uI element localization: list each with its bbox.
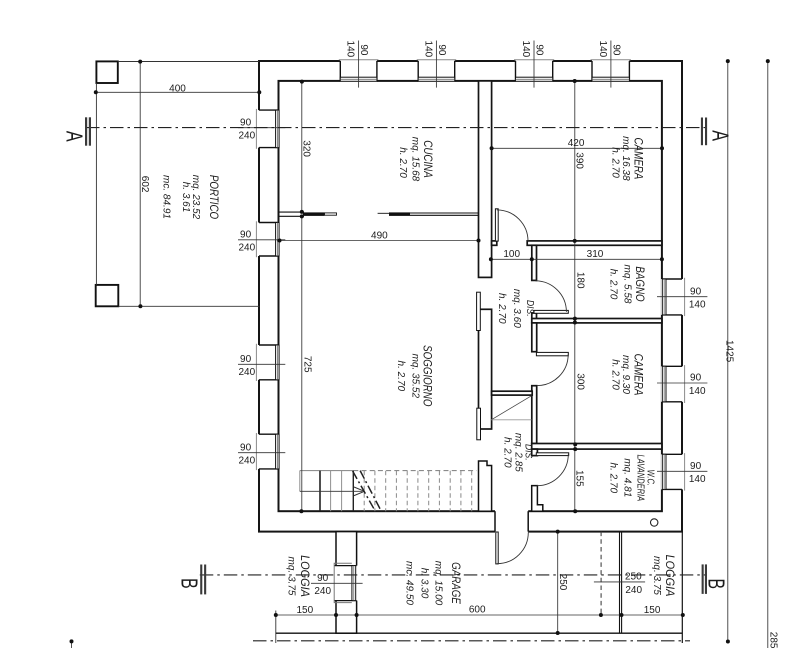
garage entry door swing arc xyxy=(497,532,528,563)
wc west wall lower with jog xyxy=(532,486,543,512)
camera2/wc divider wall xyxy=(532,444,662,450)
svg-text:mq. 9.30: mq. 9.30 xyxy=(620,355,631,394)
house inner wall boundary xyxy=(279,81,662,511)
svg-text:mq. 15.68: mq. 15.68 xyxy=(409,137,420,182)
svg-text:h. 3.61: h. 3.61 xyxy=(180,182,191,213)
garage west wall window eraser xyxy=(335,566,359,601)
horizontal dimension texts xyxy=(169,83,706,616)
svg-text:h. 2.70: h. 2.70 xyxy=(395,361,406,392)
column/pillar circle on bottom wall xyxy=(651,519,658,526)
dim 400 line xyxy=(96,91,259,93)
stairs gray riser 2 xyxy=(330,471,332,512)
central wall lower segment xyxy=(479,461,492,511)
svg-text:DIS.: DIS. xyxy=(525,300,536,317)
camera2 west wall lower xyxy=(532,386,537,444)
stairs black riser 1 xyxy=(319,471,321,512)
svg-text:140: 140 xyxy=(689,300,706,311)
svg-text:180: 180 xyxy=(574,272,585,289)
svg-text:mq. 15.00: mq. 15.00 xyxy=(432,561,443,606)
svg-text:h. 2.70: h. 2.70 xyxy=(397,147,408,178)
portico left edge line xyxy=(95,83,97,285)
section marker B left bars xyxy=(200,565,206,595)
bottom wall garage door jambs xyxy=(495,511,528,531)
svg-text:LOGGIA: LOGGIA xyxy=(663,555,675,597)
svg-text:B: B xyxy=(703,578,728,589)
svg-text:mq. 16.38: mq. 16.38 xyxy=(620,136,631,181)
top window 3 (camera) 90/140 xyxy=(514,60,554,81)
svg-text:mq. 3.75: mq. 3.75 xyxy=(651,556,662,595)
garage window jambs xyxy=(334,565,356,567)
svg-text:SOGGIORNO: SOGGIORNO xyxy=(420,345,433,406)
top window 1 (cucina) 90/140 xyxy=(339,60,379,81)
svg-text:320: 320 xyxy=(301,140,312,157)
stairs gray riser 3 xyxy=(341,471,343,512)
svg-text:725: 725 xyxy=(302,356,313,373)
dim 420 line xyxy=(492,147,662,149)
wall opening erasers xyxy=(257,59,683,533)
svg-text:h. 2.70: h. 2.70 xyxy=(608,463,619,494)
wc west wall upper xyxy=(532,449,538,456)
stairs outline top edge solid (gray) xyxy=(300,470,354,472)
svg-text:240: 240 xyxy=(238,367,255,378)
svg-text:390: 390 xyxy=(574,152,585,169)
top window 2 (cucina) 90/140 xyxy=(417,60,457,81)
svg-text:90: 90 xyxy=(436,44,447,56)
svg-text:90: 90 xyxy=(534,44,545,56)
left wall window 2 (portico) 90/240 xyxy=(256,221,279,257)
garage west wall xyxy=(336,532,357,634)
svg-text:140: 140 xyxy=(520,41,531,58)
svg-text:h. 2.70: h. 2.70 xyxy=(609,147,620,178)
camera1 south wall xyxy=(527,241,662,245)
right wall window 2 (camera) 90/140 xyxy=(662,365,685,403)
svg-text:150: 150 xyxy=(296,605,313,616)
section line A-A dash-dot xyxy=(86,127,707,129)
bottom axis dash-dot xyxy=(253,640,690,642)
svg-text:mq. 5.58: mq. 5.58 xyxy=(621,265,632,304)
wc door leaf xyxy=(536,453,568,456)
stairs break line (dash-dot diagonal pair) xyxy=(353,471,382,512)
svg-text:240: 240 xyxy=(314,586,331,597)
sliding door leaf soggiorno/dis upper xyxy=(477,292,481,330)
portico bottom edge line xyxy=(118,305,259,307)
svg-text:90: 90 xyxy=(690,286,702,297)
svg-text:600: 600 xyxy=(469,605,486,616)
dim 285 line xyxy=(767,61,769,648)
svg-text:602: 602 xyxy=(139,176,150,193)
camera1 door swing arc xyxy=(497,210,528,241)
svg-text:90: 90 xyxy=(611,44,622,56)
stairs outline top edge dashed (gray) xyxy=(353,470,476,472)
kitchen/soggiorno divider: wall stub at left wall xyxy=(279,212,305,216)
bagno west wall upper xyxy=(532,245,537,280)
svg-text:420: 420 xyxy=(568,138,585,149)
dim 390/180/300/155 line xyxy=(574,81,576,511)
section marker B right bars xyxy=(702,564,707,594)
svg-text:CAMERA: CAMERA xyxy=(631,354,644,396)
svg-text:250: 250 xyxy=(625,572,642,583)
svg-text:90: 90 xyxy=(240,442,252,453)
svg-text:1425: 1425 xyxy=(723,340,734,363)
dim 150/600/150 line (bottom) xyxy=(276,614,683,616)
stairs direction line with arrow xyxy=(300,490,363,492)
lower dis closet diagonal xyxy=(491,396,531,420)
svg-text:240: 240 xyxy=(238,456,255,467)
svg-text:DIS.: DIS. xyxy=(523,444,534,461)
svg-text:155: 155 xyxy=(574,470,585,487)
terrace bottom edge line xyxy=(276,632,683,634)
svg-text:h. 2.70: h. 2.70 xyxy=(608,269,619,300)
portico column top xyxy=(96,61,117,83)
section marker A right bars xyxy=(701,118,707,146)
right wall window 1 (bagno) 90/140 xyxy=(662,278,685,316)
central wall middle segment xyxy=(479,309,492,429)
dim 1425 line xyxy=(727,61,729,641)
svg-text:B: B xyxy=(176,578,201,589)
right wall window 3 (w.c.) 90/140 xyxy=(662,453,685,491)
loggia right east edge xyxy=(681,532,683,643)
dim 602 line xyxy=(139,62,141,307)
svg-text:h. 3.30: h. 3.30 xyxy=(419,568,430,599)
svg-text:h. 2.70: h. 2.70 xyxy=(609,359,620,390)
room label texts (rotated, italic) xyxy=(161,136,676,606)
svg-text:140: 140 xyxy=(345,41,356,58)
svg-text:150: 150 xyxy=(644,605,661,616)
stairs dashed risers (gray) xyxy=(364,471,472,512)
svg-text:mq. 3.75: mq. 3.75 xyxy=(286,557,297,596)
svg-text:90: 90 xyxy=(358,44,369,56)
svg-text:90: 90 xyxy=(240,230,252,241)
svg-text:GARAGE: GARAGE xyxy=(449,562,462,605)
garage entry door leaf xyxy=(496,532,498,564)
svg-text:400: 400 xyxy=(169,83,186,94)
svg-text:240: 240 xyxy=(238,131,255,142)
bottom left dim stub xyxy=(71,641,73,648)
svg-text:LAVANDERIA: LAVANDERIA xyxy=(635,454,646,501)
svg-text:140: 140 xyxy=(597,41,608,58)
dim 725 line xyxy=(301,216,303,511)
svg-text:140: 140 xyxy=(689,386,706,397)
section marker A left bars xyxy=(85,117,91,145)
house outer wall boundary xyxy=(259,61,682,532)
camera1 door leaf xyxy=(495,209,498,241)
interior walls xyxy=(479,81,662,511)
svg-text:90: 90 xyxy=(240,117,252,128)
svg-text:90: 90 xyxy=(690,373,702,384)
stairs left gray riser xyxy=(299,471,301,492)
loggia right west edge double line xyxy=(619,532,621,634)
svg-text:h. 2.70: h. 2.70 xyxy=(496,293,507,324)
kitchen/soggiorno divider wall right part xyxy=(410,213,479,215)
svg-text:250: 250 xyxy=(557,574,568,591)
svg-text:A: A xyxy=(707,130,732,141)
svg-text:490: 490 xyxy=(371,230,388,241)
svg-text:LOGGIA: LOGGIA xyxy=(298,555,310,597)
sliding door leaf soggiorno/dis lower xyxy=(477,408,481,440)
top window 4 (camera) 90/140 xyxy=(591,60,631,81)
kitchen sliding door leaf right (thick) xyxy=(389,212,410,216)
left wall window 4 (soggiorno) 90/240 xyxy=(256,433,279,470)
dim 250 line (garage) xyxy=(557,532,559,634)
svg-text:285: 285 xyxy=(768,632,779,648)
svg-text:mq. 2.85: mq. 2.85 xyxy=(513,433,524,472)
camera2 west wall upper xyxy=(532,323,537,352)
svg-text:300: 300 xyxy=(575,373,586,390)
svg-text:PORTICO: PORTICO xyxy=(207,175,220,219)
garage window glazing xyxy=(352,566,356,601)
garage window sill box xyxy=(334,563,352,602)
svg-text:240: 240 xyxy=(238,243,255,254)
svg-text:A: A xyxy=(61,131,86,142)
svg-text:90: 90 xyxy=(317,573,329,584)
svg-text:140: 140 xyxy=(423,41,434,58)
bagno/camera2 divider wall xyxy=(532,319,662,323)
kitchen sliding door leaf left (thick) xyxy=(303,212,325,216)
bagno door leaf xyxy=(534,310,568,313)
svg-text:mq. 4.81: mq. 4.81 xyxy=(622,458,633,497)
svg-text:mq. 3.60: mq. 3.60 xyxy=(511,289,522,328)
lower dis closet shelf line (gray) xyxy=(491,419,531,421)
loggia left west edge / dim extension xyxy=(275,611,277,644)
wc door swing arc xyxy=(537,454,569,485)
svg-text:CAMERA: CAMERA xyxy=(631,138,644,180)
dim 490 line xyxy=(280,240,479,242)
svg-text:CUCINA: CUCINA xyxy=(421,140,434,177)
section line B-B dash-dot xyxy=(200,574,707,576)
svg-text:BAGNO: BAGNO xyxy=(633,266,646,301)
lower dis top wall xyxy=(492,391,533,395)
kitchen sliding door leaf tip box left xyxy=(325,213,337,215)
portico top edge line xyxy=(118,61,259,63)
svg-text:90: 90 xyxy=(240,354,252,365)
dimension end dots xyxy=(70,59,770,643)
camera2 door swing arc xyxy=(537,355,568,386)
kitchen sliding door guide line right xyxy=(378,212,390,214)
svg-text:240: 240 xyxy=(625,585,642,596)
left wall window 1 (portico) 90/240 xyxy=(256,109,279,149)
svg-text:mc. 49.50: mc. 49.50 xyxy=(403,561,414,605)
svg-text:90: 90 xyxy=(690,461,702,472)
camera1 south wall left jamb xyxy=(492,241,497,245)
left wall window 3 (soggiorno) 90/240 xyxy=(256,344,279,381)
camera2 door leaf xyxy=(536,352,568,355)
central wall upper segment xyxy=(479,81,492,278)
svg-text:310: 310 xyxy=(587,249,604,260)
dim 100/310 line xyxy=(491,258,662,260)
stairs black riser 4 xyxy=(352,471,354,512)
svg-text:h. 2.70: h. 2.70 xyxy=(502,437,513,468)
window label leader lines xyxy=(238,41,707,584)
svg-text:140: 140 xyxy=(689,474,706,485)
rotated dimension texts xyxy=(139,41,778,649)
bagno west wall lower stub xyxy=(532,313,537,323)
portico column bottom xyxy=(96,285,119,306)
dim 320 line xyxy=(301,81,303,212)
dimension lines xyxy=(72,61,768,648)
garage east opening dashed edge xyxy=(600,532,602,615)
svg-text:mc. 84.91: mc. 84.91 xyxy=(161,175,172,219)
svg-text:100: 100 xyxy=(503,249,520,260)
bagno door swing arc xyxy=(535,281,566,312)
svg-text:mq. 35.52: mq. 35.52 xyxy=(410,354,421,399)
